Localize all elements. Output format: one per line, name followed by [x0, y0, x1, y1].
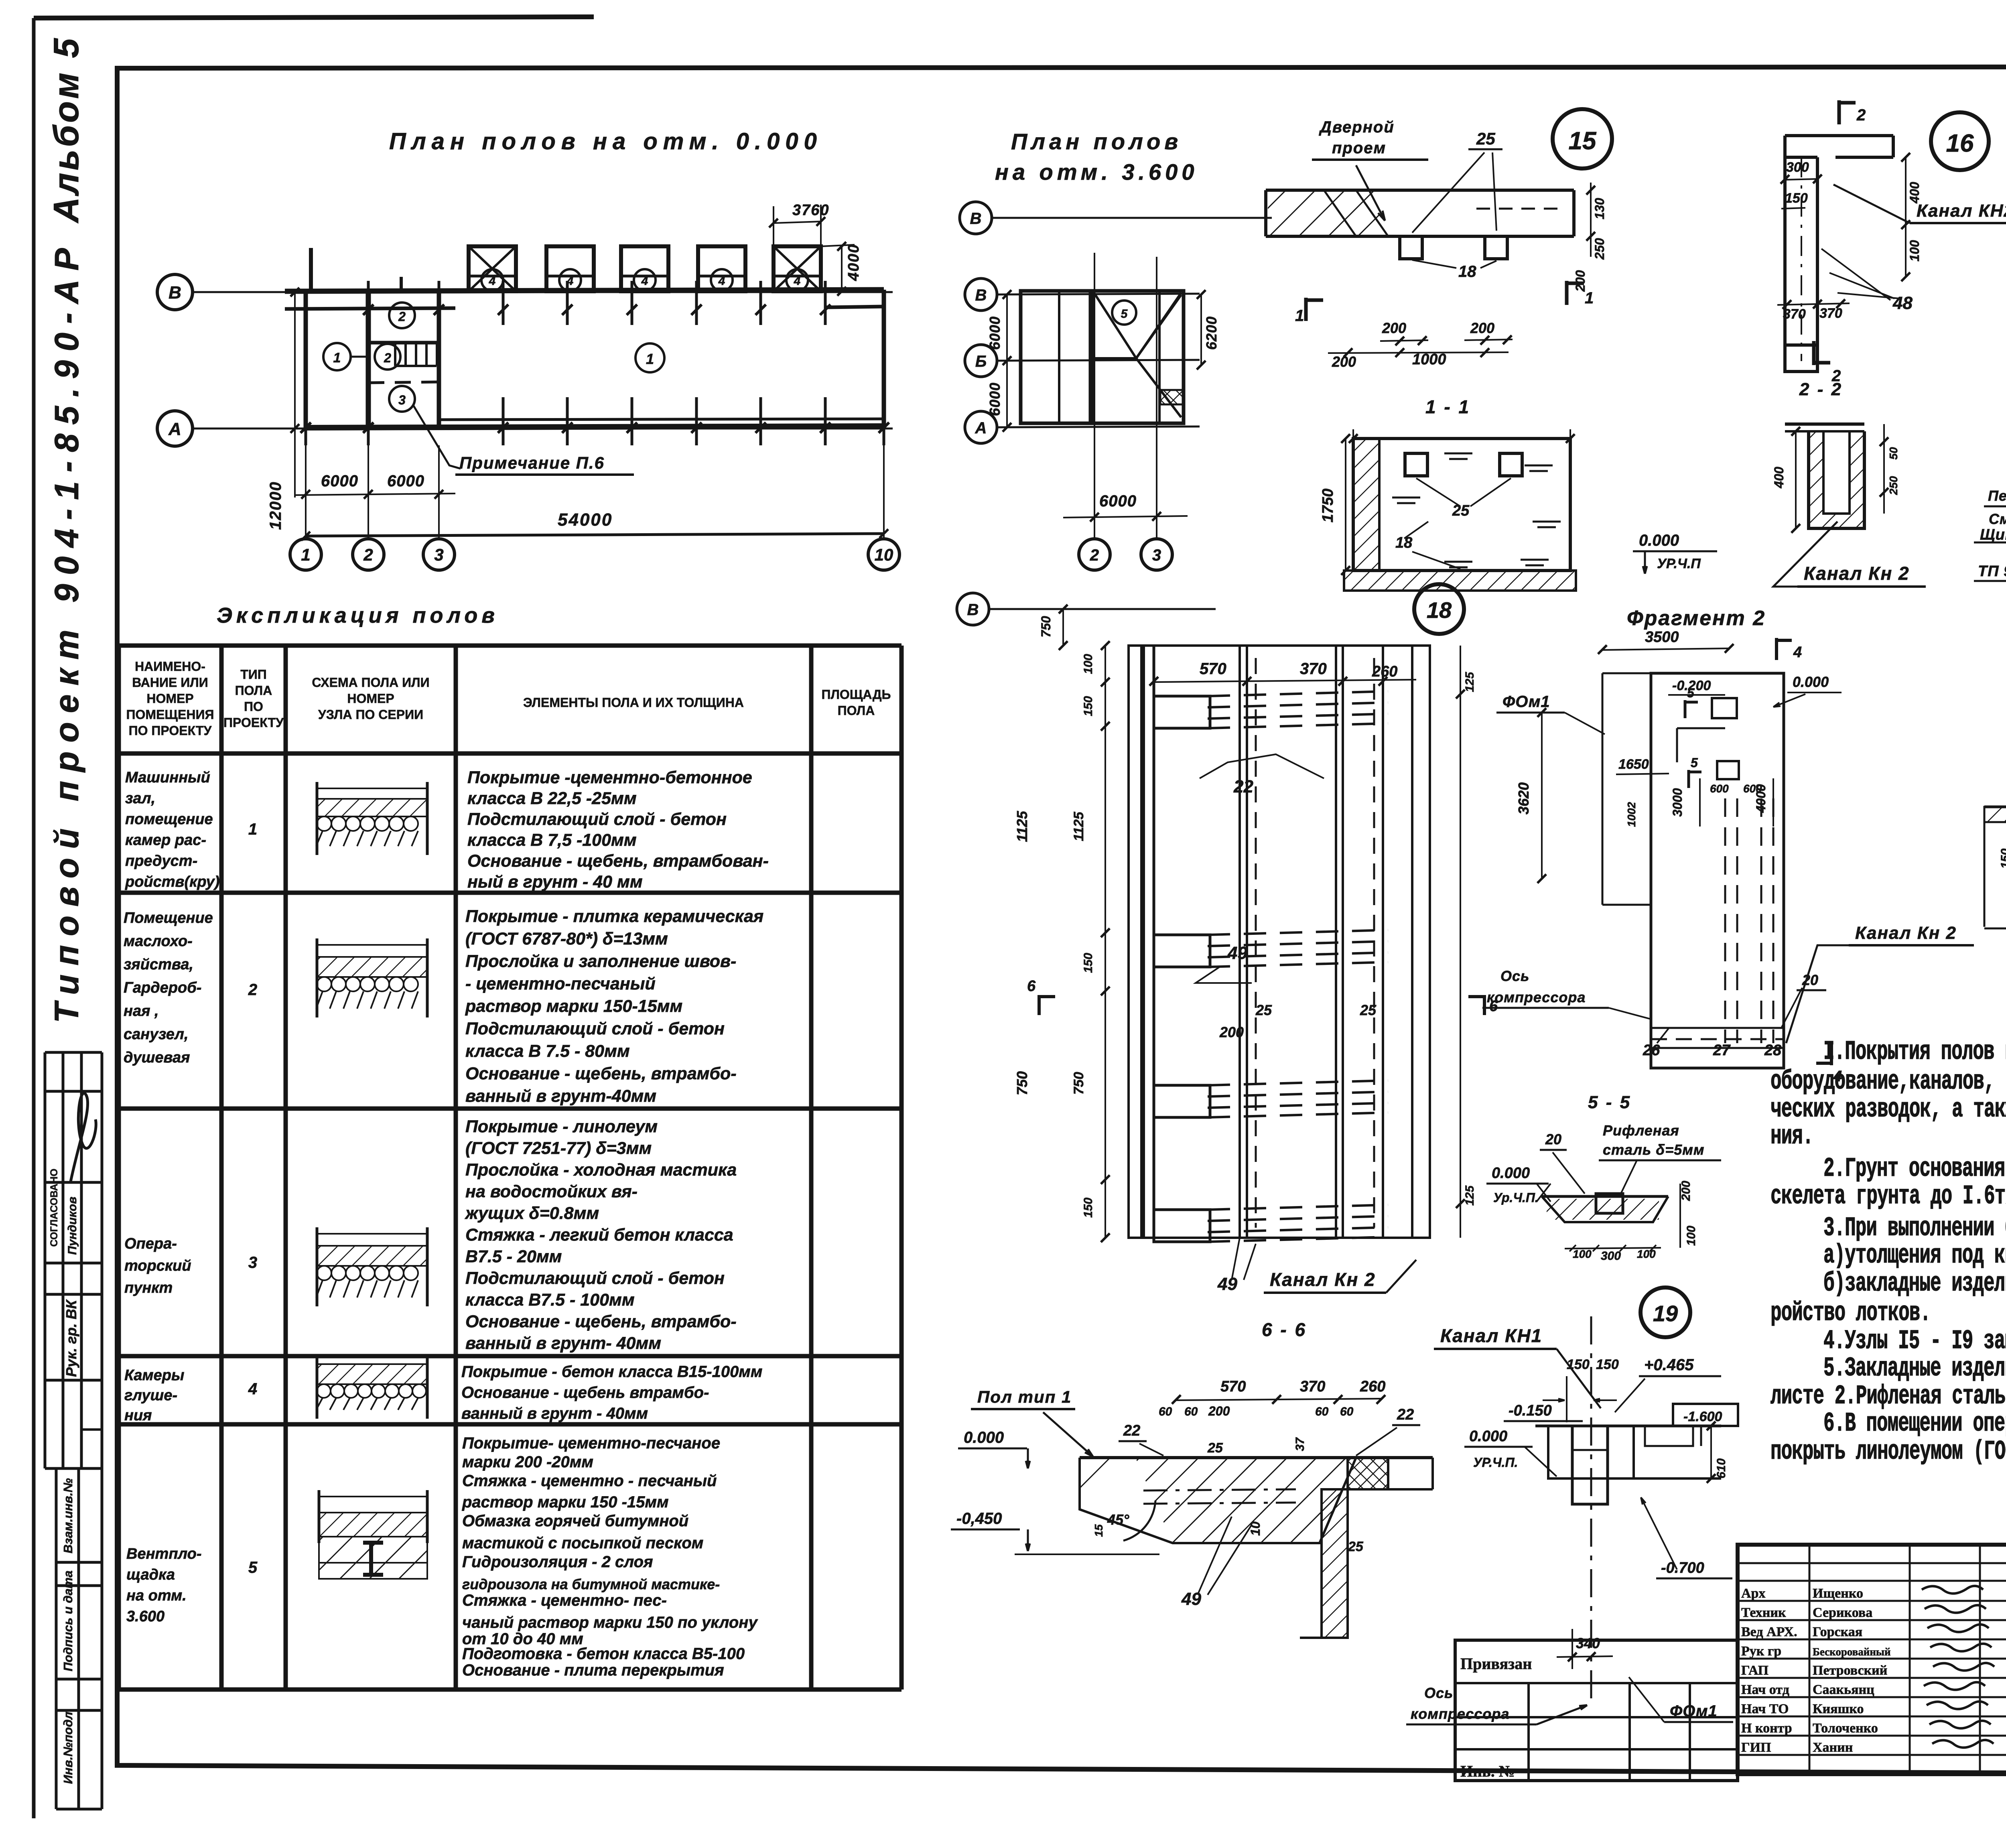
svg-text:2: 2: [1856, 106, 1866, 124]
svg-text:Переменно: Переменно: [1988, 487, 2006, 504]
section 1-1 top ticks: [1352, 429, 1354, 447]
plan1 door dashed line: [368, 382, 439, 383]
svg-text:5: 5: [1687, 686, 1695, 700]
svg-text:Пундиков: Пундиков: [66, 1197, 79, 1255]
notes typewritten text: [1770, 1037, 2006, 1467]
svg-text:200: 200: [1332, 353, 1356, 370]
svg-text:Покрытие - плитка керамическая: Покрытие - плитка керамическая: [465, 907, 763, 926]
svg-text:зяйства,: зяйства,: [124, 956, 193, 973]
section 1-1 drawing box: [1353, 439, 1570, 571]
svg-text:-1.600: -1.600: [1683, 1409, 1722, 1424]
svg-text:ТП 904-1-85-КМ: ТП 904-1-85-КМ: [1978, 563, 2006, 580]
svg-text:на отм. 3.600: на отм. 3.600: [995, 159, 1198, 185]
stamp signature scribble: [70, 1093, 96, 1184]
svg-text:100: 100: [1573, 1248, 1592, 1260]
svg-text:Канал Кн 2: Канал Кн 2: [1270, 1269, 1376, 1290]
plan1 partition wall column line 3: [437, 291, 441, 428]
svg-text:Нач ТО: Нач ТО: [1741, 1702, 1789, 1716]
svg-text:Гардероб-: Гардероб-: [124, 979, 201, 996]
svg-text:3: 3: [1152, 546, 1161, 564]
svg-text:Прослойка и заполнение швов-: Прослойка и заполнение швов-: [465, 952, 736, 971]
svg-text:200: 200: [1470, 320, 1494, 336]
detail15 wall band plan: [1266, 189, 1574, 192]
svg-text:1: 1: [301, 545, 310, 564]
plan1 machine hall label 1: [636, 343, 664, 372]
svg-text:УР.Ч.П: УР.Ч.П: [1657, 556, 1701, 571]
detail15 right rotated dims: [1590, 183, 1592, 257]
svg-text:600: 600: [1710, 782, 1729, 795]
6-6 soil hatch left wedge: [1080, 1458, 1135, 1509]
svg-text:Привязан: Привязан: [1460, 1655, 1532, 1673]
svg-text:Подстилающий слой - бетон: Подстилающий слой - бетон: [465, 1269, 725, 1288]
plan1 column ticks on axis A: [305, 397, 307, 445]
detail 19 bubble: [1641, 1288, 1690, 1337]
svg-text:Взам.инв.№: Взам.инв.№: [61, 1478, 75, 1554]
svg-text:ная ,: ная ,: [124, 1003, 159, 1019]
svg-text:370: 370: [1300, 1378, 1325, 1395]
svg-text:3: 3: [398, 393, 406, 407]
6-6 trench hatch region: [1135, 1458, 1356, 1543]
svg-text:ГИП: ГИП: [1741, 1740, 1771, 1755]
svg-text:6200: 6200: [1203, 316, 1220, 350]
svg-text:ный в грунт - 40 мм: ный в грунт - 40 мм: [467, 872, 643, 892]
plan1 right wall: [882, 290, 886, 426]
svg-text:Прослойка - холодная мастика: Прослойка - холодная мастика: [465, 1160, 737, 1180]
svg-text:2: 2: [398, 309, 406, 324]
svg-text:-0.150: -0.150: [1509, 1402, 1552, 1419]
svg-text:45°: 45°: [1107, 1511, 1129, 1528]
detail16 section mark 2 bottom: [1812, 341, 1816, 365]
svg-text:В: В: [970, 210, 982, 227]
svg-text:В: В: [967, 601, 979, 619]
svg-text:См. лист 3: См. лист 3: [1989, 511, 2006, 527]
svg-text:класса В7.5 - 100мм: класса В7.5 - 100мм: [465, 1290, 635, 1310]
svg-text:А: А: [168, 419, 181, 439]
detail18 left thick wall: [1140, 646, 1145, 1238]
svg-text:ванный в грунт-40мм: ванный в грунт-40мм: [465, 1086, 656, 1106]
svg-text:Нач отд: Нач отд: [1741, 1682, 1789, 1697]
svg-text:листе 2.Рифленая сталь учтена: листе 2.Рифленая сталь учтена в чертежах…: [1770, 1381, 2006, 1412]
svg-text:150: 150: [1999, 849, 2006, 869]
svg-text:Рук гр: Рук гр: [1741, 1644, 1781, 1659]
plan2 thick wall: [1089, 291, 1095, 423]
svg-text:260: 260: [1360, 1378, 1385, 1395]
svg-text:0.000: 0.000: [1639, 532, 1679, 549]
svg-text:раствор марки 150 -15мм: раствор марки 150 -15мм: [462, 1493, 669, 1511]
svg-text:3.600: 3.600: [126, 1608, 164, 1625]
svg-text:250: 250: [1592, 238, 1607, 260]
svg-text:Помещение: Помещение: [124, 910, 213, 926]
detail19 dim 610: [1710, 1426, 1712, 1478]
plan2 room label 5: [1112, 301, 1136, 325]
svg-text:1: 1: [1295, 307, 1304, 325]
svg-text:1125: 1125: [1014, 810, 1030, 842]
plan1 axis line A: [192, 428, 893, 430]
svg-text:12000: 12000: [267, 481, 284, 530]
svg-text:19: 19: [1653, 1301, 1678, 1326]
detail 18 bubble: [1414, 584, 1464, 634]
svg-text:класса В 7.5 - 80мм: класса В 7.5 - 80мм: [465, 1042, 630, 1061]
svg-text:ПОМЕЩЕНИЯ: ПОМЕЩЕНИЯ: [126, 707, 214, 722]
detail16 plan walls: [1785, 134, 1893, 137]
svg-text:20: 20: [1545, 1131, 1561, 1147]
6-6 right foundation column: [1322, 1489, 1348, 1638]
svg-text:класса В 22,5 -25мм: класса В 22,5 -25мм: [467, 789, 637, 808]
plan1 room partition horizontal: [368, 341, 439, 345]
svg-text:1002: 1002: [1625, 802, 1638, 827]
svg-text:на отм.: на отм.: [126, 1587, 187, 1604]
plan1 grid line extensions down: [305, 445, 307, 538]
svg-text:Техник: Техник: [1741, 1605, 1786, 1620]
6-6 dashdot lines: [1143, 1489, 1296, 1491]
svg-text:санузел,: санузел,: [124, 1026, 189, 1043]
svg-text:6000: 6000: [987, 382, 1003, 416]
svg-text:торский: торский: [124, 1257, 191, 1274]
plan1 axis circle A: [157, 411, 193, 446]
svg-text:ванный в грунт - 40мм: ванный в грунт - 40мм: [461, 1405, 648, 1422]
svg-text:4: 4: [641, 274, 648, 288]
svg-text:370: 370: [1783, 307, 1806, 322]
svg-text:22: 22: [1397, 1406, 1414, 1423]
detail 15 bubble: [1553, 109, 1612, 169]
svg-text:ванный в грунт- 40мм: ванный в грунт- 40мм: [465, 1334, 661, 1353]
svg-text:I.Покрытия полов выполнять пос: I.Покрытия полов выполнять после устройс…: [1823, 1037, 2006, 1067]
detail16 section mark 2 top: [1837, 100, 1841, 124]
fragment2 bottom channel lines: [1651, 1027, 1784, 1029]
svg-text:Основание - щебень, втрамбо-: Основание - щебень, втрамбо-: [465, 1312, 737, 1331]
plan1 dim row 6000 6000: [295, 493, 455, 495]
svg-text:150: 150: [1082, 696, 1095, 716]
svg-text:0.000: 0.000: [1793, 674, 1829, 690]
svg-text:Канал КН2: Канал КН2: [1917, 201, 2006, 221]
svg-text:6000: 6000: [987, 316, 1003, 350]
svg-text:60: 60: [1184, 1405, 1198, 1418]
svg-text:ВАНИЕ ИЛИ: ВАНИЕ ИЛИ: [132, 675, 208, 690]
svg-text:0.000: 0.000: [1492, 1165, 1530, 1182]
svg-text:Покрытие - линолеум: Покрытие - линолеум: [465, 1117, 658, 1136]
svg-text:класса В 7,5 -100мм: класса В 7,5 -100мм: [467, 831, 637, 850]
svg-text:48: 48: [1892, 293, 1913, 313]
svg-text:1 - 1: 1 - 1: [1425, 396, 1470, 417]
svg-text:НОМЕР: НОМЕР: [347, 691, 394, 706]
svg-text:60: 60: [1159, 1405, 1172, 1418]
svg-text:15: 15: [1569, 127, 1597, 155]
svg-text:Пол тип 1: Пол тип 1: [977, 1387, 1072, 1406]
svg-text:4: 4: [248, 1380, 257, 1398]
svg-text:чаный раствор марки 150 по укл: чаный раствор марки 150 по уклону: [462, 1614, 758, 1631]
plan1 vent chambers row: [469, 246, 516, 291]
svg-text:Основание - щебень, втрамбо-: Основание - щебень, втрамбо-: [465, 1064, 737, 1083]
plan2 inner verticals: [1058, 291, 1060, 423]
svg-text:150: 150: [1082, 1198, 1095, 1218]
svg-text:2 - 2: 2 - 2: [1799, 380, 1843, 399]
fragment2 section mark 4 top: [1775, 638, 1778, 660]
svg-text:Щит из рифленой: Щит из рифленой: [1980, 526, 2006, 543]
svg-text:зал,: зал,: [125, 790, 155, 807]
svg-text:гидроизола на битумной масти: гидроизола на битумной мастике-: [462, 1576, 720, 1592]
svg-text:ческих разводок, а также после: ческих разводок, а также после монтажа т…: [1770, 1095, 2006, 1125]
fragment2 dim 3620: [1541, 713, 1543, 879]
svg-text:300: 300: [1601, 1249, 1621, 1263]
svg-text:План полов: План полов: [1011, 129, 1182, 154]
svg-text:16: 16: [1946, 130, 1974, 157]
sheet outer border top-left segment: [34, 17, 594, 18]
svg-text:душевая: душевая: [124, 1049, 190, 1066]
svg-text:18: 18: [1427, 597, 1452, 623]
svg-text:0.000: 0.000: [1469, 1428, 1507, 1445]
svg-text:мастикой с посыпкой песком: мастикой с посыпкой песком: [462, 1534, 703, 1552]
svg-text:А: А: [975, 419, 987, 437]
plan1 room label 2 lower: [375, 344, 400, 370]
svg-text:Основание - щебень втрамбо-: Основание - щебень втрамбо-: [461, 1384, 709, 1401]
svg-text:28: 28: [1764, 1042, 1782, 1059]
plan2 right dim 6200: [1200, 294, 1202, 365]
plan1 axis circle B: [157, 274, 193, 310]
detail18 section mark 6 right: [1483, 995, 1486, 1015]
detail18 dim 750 top left: [1062, 609, 1064, 646]
svg-text:(ГОСТ 7251-77) δ=3мм: (ГОСТ 7251-77) δ=3мм: [465, 1139, 652, 1158]
svg-text:4: 4: [718, 274, 725, 288]
svg-text:марки 200 -20мм: марки 200 -20мм: [462, 1453, 593, 1471]
plan1 left vertical dim 12000: [294, 292, 296, 498]
svg-text:2: 2: [248, 981, 257, 999]
svg-text:Подстилающий слой - бетон: Подстилающий слой - бетон: [467, 810, 727, 829]
svg-text:маслохо-: маслохо-: [124, 933, 193, 950]
svg-text:Машинный: Машинный: [125, 769, 210, 786]
svg-text:Фрагмент 2: Фрагмент 2: [1627, 607, 1766, 630]
svg-text:1650: 1650: [1618, 757, 1649, 772]
svg-text:200: 200: [1219, 1024, 1244, 1040]
section 1-1 floor hatched strip: [1344, 571, 1576, 591]
4-4 floor slab: [1984, 806, 2006, 808]
fragment2 inner pads: [1712, 698, 1737, 718]
svg-text:3760: 3760: [792, 202, 830, 219]
fragment2 channel dashed verticals: [1724, 798, 1726, 1043]
svg-text:(ГОСТ 6787-80*) δ=13мм: (ГОСТ 6787-80*) δ=13мм: [465, 929, 668, 948]
svg-text:+0.465: +0.465: [1644, 1356, 1694, 1374]
svg-text:130: 130: [1592, 198, 1607, 219]
svg-text:3000: 3000: [1670, 788, 1685, 816]
svg-text:НАИМЕНО-: НАИМЕНО-: [135, 659, 205, 674]
svg-text:В7.5 - 20мм: В7.5 - 20мм: [465, 1247, 562, 1266]
svg-text:54000: 54000: [558, 510, 613, 530]
detail19 drawing: [1535, 1425, 1721, 1428]
svg-text:750: 750: [1014, 1071, 1030, 1095]
svg-text:2: 2: [384, 351, 391, 365]
table row3 schema: [316, 1227, 319, 1306]
svg-text:100: 100: [1685, 1226, 1698, 1246]
detail19 box -1.600: [1673, 1404, 1738, 1426]
svg-text:Ось: Ось: [1424, 1685, 1453, 1701]
svg-text:60: 60: [1340, 1405, 1354, 1418]
svg-text:5.Закладные изделия по узлам I: 5.Закладные изделия по узлам I5-I9 учтен…: [1823, 1353, 2006, 1384]
svg-text:150: 150: [1082, 953, 1095, 973]
svg-text:предуст-: предуст-: [125, 853, 197, 869]
fragment2 section marks 5: [1684, 700, 1687, 718]
svg-text:18: 18: [1458, 263, 1476, 280]
detail15 section mark 1 right: [1565, 281, 1569, 305]
svg-text:глуше-: глуше-: [124, 1387, 177, 1404]
svg-text:25: 25: [1476, 129, 1495, 148]
svg-text:1125: 1125: [1071, 811, 1086, 841]
svg-text:ГАП: ГАП: [1741, 1663, 1768, 1678]
6-6 floor line: [1080, 1456, 1433, 1459]
svg-text:Толоченко: Толоченко: [1813, 1721, 1878, 1736]
svg-text:0.000: 0.000: [964, 1429, 1004, 1446]
svg-text:1750: 1750: [1320, 489, 1336, 523]
svg-text:УЗЛА ПО СЕРИИ: УЗЛА ПО СЕРИИ: [318, 707, 423, 722]
svg-text:2: 2: [363, 545, 373, 564]
svg-text:ния.: ния.: [1770, 1121, 1813, 1152]
svg-text:Подготовка - бетон класса В5-1: Подготовка - бетон класса В5-100: [462, 1645, 745, 1663]
svg-text:Серикова: Серикова: [1813, 1605, 1872, 1620]
svg-text:125: 125: [1463, 1185, 1476, 1206]
svg-text:3: 3: [248, 1254, 257, 1271]
svg-text:Стяжка - легкий бетон класса: Стяжка - легкий бетон класса: [465, 1225, 733, 1245]
section 1-1 embedded squares: [1405, 453, 1427, 476]
svg-text:5: 5: [1121, 307, 1128, 321]
svg-text:125: 125: [1463, 672, 1476, 692]
detail18 left dim column: [1105, 646, 1106, 1238]
svg-text:б)закладные изделия согласно у: б)закладные изделия согласно узлам на да…: [1823, 1269, 2006, 1299]
plan2 grid bubbles 2 3: [1079, 539, 1110, 570]
detail15 dims 200 1000 200: [1380, 340, 1428, 341]
svg-text:200: 200: [1208, 1404, 1230, 1418]
svg-text:400: 400: [1907, 182, 1922, 204]
svg-text:10: 10: [875, 545, 893, 564]
svg-text:150: 150: [1596, 1357, 1619, 1372]
svg-text:200: 200: [1679, 1181, 1693, 1201]
svg-text:340: 340: [1576, 1635, 1600, 1651]
detail18 axis circle B: [957, 593, 989, 625]
svg-text:100: 100: [1637, 1248, 1656, 1260]
plan1 partition wall column line 2: [366, 291, 371, 428]
svg-text:Подстилающий слой - бетон: Подстилающий слой - бетон: [465, 1019, 725, 1038]
detail 16 bubble: [1931, 112, 1989, 170]
svg-text:5 - 5: 5 - 5: [1588, 1093, 1631, 1112]
svg-text:2: 2: [1090, 546, 1099, 564]
svg-text:Покрытие- цементно-песчаное: Покрытие- цементно-песчаное: [462, 1434, 720, 1452]
svg-text:Б: Б: [975, 353, 987, 370]
svg-text:СХЕМА ПОЛА ИЛИ: СХЕМА ПОЛА ИЛИ: [312, 675, 429, 690]
table row4 schema: [316, 1358, 319, 1419]
svg-text:ПО ПРОЕКТУ: ПО ПРОЕКТУ: [129, 723, 212, 738]
svg-text:ТИП: ТИП: [240, 667, 267, 682]
svg-text:ния: ния: [124, 1407, 152, 1424]
svg-text:22: 22: [1233, 777, 1253, 796]
svg-text:ПОЛА: ПОЛА: [838, 703, 875, 718]
detail18 section mark 6 left: [1038, 995, 1041, 1015]
svg-text:Рук. гр. ВК: Рук. гр. ВК: [63, 1299, 79, 1377]
plan1 stairs: [394, 343, 396, 366]
svg-text:250: 250: [1887, 476, 1900, 495]
svg-text:3500: 3500: [1645, 629, 1679, 646]
svg-text:Покрытие - бетон класса В15-10: Покрытие - бетон класса В15-100мм: [461, 1363, 763, 1381]
svg-text:Стяжка - цементно - песчаный: Стяжка - цементно - песчаный: [462, 1472, 717, 1490]
svg-text:ПОЛА: ПОЛА: [235, 683, 272, 698]
svg-text:ПЛОЩАДЬ: ПЛОЩАДЬ: [821, 687, 891, 702]
svg-text:50: 50: [1887, 447, 1900, 460]
svg-text:щадка: щадка: [126, 1566, 175, 1583]
svg-text:1: 1: [646, 351, 654, 367]
svg-text:370: 370: [1819, 306, 1842, 321]
table row1 schema: [316, 782, 319, 855]
svg-text:План полов на отм. 0.000: План полов на отм. 0.000: [389, 128, 822, 154]
fragment2 outer rect: [1651, 673, 1784, 1068]
svg-text:покрыть линолеумом (ГОСТ725I-7: покрыть линолеумом (ГОСТ725I-77): [1770, 1437, 2006, 1467]
svg-text:6 - 6: 6 - 6: [1262, 1319, 1307, 1340]
svg-text:ЭЛЕМЕНТЫ ПОЛА И ИХ ТОЛЩИНА: ЭЛЕМЕНТЫ ПОЛА И ИХ ТОЛЩИНА: [523, 695, 744, 710]
plan2 axis circles V B A: [965, 278, 997, 311]
svg-text:пункт: пункт: [124, 1279, 173, 1296]
svg-text:НОМЕР: НОМЕР: [146, 691, 193, 706]
svg-text:750: 750: [1039, 616, 1053, 638]
svg-text:ройств(кру): ройств(кру): [125, 873, 219, 890]
plan2 hatched patch right wall: [1160, 390, 1184, 404]
svg-text:6000: 6000: [387, 472, 424, 490]
svg-text:200: 200: [1382, 320, 1406, 336]
detail15 anchor squares: [1400, 236, 1422, 259]
svg-text:6.В помещении оператора стальн: 6.В помещении оператора стальные щиты пе…: [1823, 1409, 2006, 1439]
stamp lower box grid: [55, 1468, 58, 1809]
svg-text:Ханин: Ханин: [1813, 1740, 1853, 1755]
svg-text:Альбом 5: Альбом 5: [46, 36, 86, 223]
plan1 wall stub top left: [309, 248, 313, 291]
svg-text:60: 60: [1315, 1405, 1329, 1418]
svg-text:3.При выполнении бетонного под: 3.При выполнении бетонного подстилающего…: [1823, 1213, 2006, 1244]
svg-text:750: 750: [1071, 1072, 1086, 1095]
title block signature table: [1738, 1562, 2006, 1564]
5-5 drawing: [1542, 1195, 1668, 1198]
title block outer: [1738, 1545, 2006, 1774]
svg-text:на водостойких вя-: на водостойких вя-: [465, 1182, 638, 1201]
svg-text:Покрытие -цементно-бетонное: Покрытие -цементно-бетонное: [467, 768, 752, 787]
svg-text:25: 25: [1360, 1002, 1377, 1018]
plan1 room label 2 upper: [389, 303, 415, 328]
svg-text:4: 4: [794, 274, 801, 288]
svg-text:6: 6: [1027, 978, 1036, 995]
svg-text:260: 260: [1372, 663, 1397, 680]
svg-text:1000: 1000: [1412, 351, 1446, 368]
section 2-2 right dims 50 250: [1883, 424, 1885, 514]
svg-text:4: 4: [489, 274, 496, 288]
svg-text:жущих δ=0.8мм: жущих δ=0.8мм: [465, 1204, 599, 1223]
svg-text:100: 100: [1907, 240, 1922, 262]
svg-text:4.Узлы I5 - I9 замаркированы н: 4.Узлы I5 - I9 замаркированы на листе 3.: [1823, 1326, 2006, 1357]
plan1 note leader Primechanie P.6: [413, 405, 461, 469]
table row2 schema: [316, 938, 319, 1017]
svg-text:1: 1: [333, 350, 341, 366]
svg-text:скелета грунта до I.6т/м: скелета грунта до I.6т/м: [1770, 1181, 2006, 1212]
detail18 inner verticals: [1239, 646, 1241, 1238]
svg-text:5: 5: [1691, 755, 1698, 770]
svg-text:раствор марки 150-15мм: раствор марки 150-15мм: [465, 997, 682, 1016]
svg-text:Инв.№подл.: Инв.№подл.: [61, 1708, 75, 1784]
svg-text:Саакьянц: Саакьянц: [1813, 1682, 1874, 1697]
svg-text:Канал КН1: Канал КН1: [1440, 1325, 1542, 1346]
plan2 vertical dims 6000 6000: [1006, 294, 1008, 427]
plan2 roof cross diagonals: [1094, 293, 1136, 358]
detail18 right dims 125: [1460, 646, 1461, 1238]
svg-text:В: В: [975, 286, 987, 304]
stamp upper box grid: [44, 1052, 47, 1468]
svg-text:Стяжка - цементно- пес-: Стяжка - цементно- пес-: [462, 1592, 667, 1609]
svg-text:Горская: Горская: [1813, 1625, 1862, 1639]
svg-text:помещение: помещение: [125, 811, 213, 828]
svg-text:Кияшко: Кияшко: [1813, 1702, 1864, 1716]
svg-text:570: 570: [1200, 660, 1226, 678]
detail16 channel bottom: [1785, 345, 1817, 372]
